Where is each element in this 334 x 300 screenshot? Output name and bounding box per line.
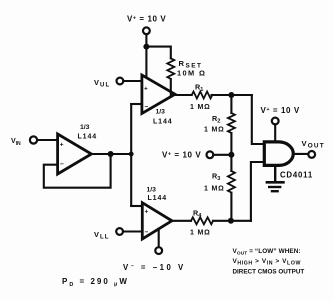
svg-text:1/3: 1/3	[156, 109, 166, 116]
svg-text:1 MΩ: 1 MΩ	[190, 104, 210, 111]
terminal V+ gate	[272, 118, 279, 125]
svg-text:L144: L144	[78, 134, 98, 141]
svg-text:V+ = 10 V: V+ = 10 V	[261, 106, 300, 115]
svg-text:1 MΩ: 1 MΩ	[190, 230, 210, 237]
resistor R2	[228, 113, 235, 133]
terminal V+ middle	[207, 151, 214, 158]
wire: gate output to VOUT	[293, 153, 308, 155]
junction dot bus mid	[129, 152, 134, 157]
op-amp U3 (1/3 L144, lower comparator)	[142, 203, 172, 239]
svg-text:L144: L144	[148, 195, 168, 202]
wire: VUL to U1 + input	[123, 80, 142, 82]
svg-text:V+ = 10 V: V+ = 10 V	[127, 15, 166, 24]
svg-text:−: −	[145, 104, 149, 111]
wire: V+ terminal down to op-amp U1 top	[145, 34, 147, 77]
wire: U2 feedback loop	[44, 154, 111, 188]
svg-text:1 MΩ: 1 MΩ	[204, 127, 224, 134]
terminal VOUT	[308, 151, 315, 158]
wire: U1 output to R1	[175, 94, 192, 96]
wire: V+ node to RSET top	[146, 47, 170, 59]
svg-text:10M Ω: 10M Ω	[177, 69, 206, 78]
wire: V+ gate terminal to gate top	[274, 124, 276, 141]
wire: V+ mid node down to R3	[230, 155, 232, 171]
wire: V+ mid terminal to bus	[213, 154, 231, 156]
svg-text:+: +	[60, 142, 64, 149]
svg-text:V+ = 10 V: V+ = 10 V	[162, 151, 201, 160]
wire: U3 output to R4	[172, 220, 191, 222]
wire: gate bottom to ground	[274, 165, 276, 181]
svg-text:1 MΩ: 1 MΩ	[204, 186, 224, 193]
svg-text:CD4011: CD4011	[280, 170, 313, 179]
resistor R1	[192, 92, 213, 99]
wire: node A down to R2	[230, 95, 232, 113]
wire: R3 bottom to node B	[230, 193, 232, 221]
NAND gate CD4011	[264, 142, 293, 166]
junction dot U2 output	[108, 151, 114, 157]
wire: R1 to node A and to right bus corner	[212, 94, 252, 96]
op-amp U1 (1/3 L144, upper comparator)	[142, 75, 175, 114]
svg-text:−: −	[60, 161, 64, 168]
wire: R2 bottom to V+ mid node	[230, 133, 232, 155]
junction dot node B	[228, 218, 234, 224]
wire: bus to U3 + input	[131, 205, 142, 207]
wire: VLL to U3 - input	[123, 230, 142, 232]
resistor RSET	[167, 58, 174, 79]
svg-text:+: +	[145, 209, 149, 216]
terminal VUL	[117, 78, 124, 85]
svg-text:1/3: 1/3	[80, 124, 90, 131]
resistor R3	[228, 171, 235, 193]
terminal V-	[155, 247, 162, 254]
wire: U2 output to bus	[91, 153, 131, 155]
terminal V+ top	[143, 27, 150, 34]
wire: VIN to U2 + input	[37, 139, 58, 141]
wire: U1 - input stub to bus	[131, 103, 142, 105]
svg-text:DIRECT CMOS OUTPUT: DIRECT CMOS OUTPUT	[233, 268, 305, 275]
terminal VLL	[116, 228, 123, 235]
wire: U3 bottom to V- terminal	[158, 229, 160, 247]
wire: upper right bus to gate input 1	[252, 95, 264, 144]
terminal VIN	[30, 136, 37, 143]
junction dot node A	[228, 92, 234, 98]
ground	[267, 181, 284, 184]
wire: R4 to node B and right bus corner	[213, 220, 251, 222]
junction dot V+ node	[143, 44, 149, 50]
svg-text:−: −	[145, 229, 149, 236]
svg-text:1/3: 1/3	[147, 187, 157, 194]
wire: vertical bus (U1 minus to U3 plus)	[130, 104, 132, 206]
svg-text:+: +	[144, 86, 148, 93]
resistor R4	[191, 217, 213, 224]
junction dot V+ mid node	[228, 152, 234, 158]
op-amp U2 (1/3 L144, input buffer)	[58, 134, 92, 174]
svg-text:L144: L144	[153, 119, 173, 126]
wire: lower right bus to gate input 2	[251, 162, 264, 221]
wire: RSET bottom to U1 output node	[170, 79, 172, 95]
